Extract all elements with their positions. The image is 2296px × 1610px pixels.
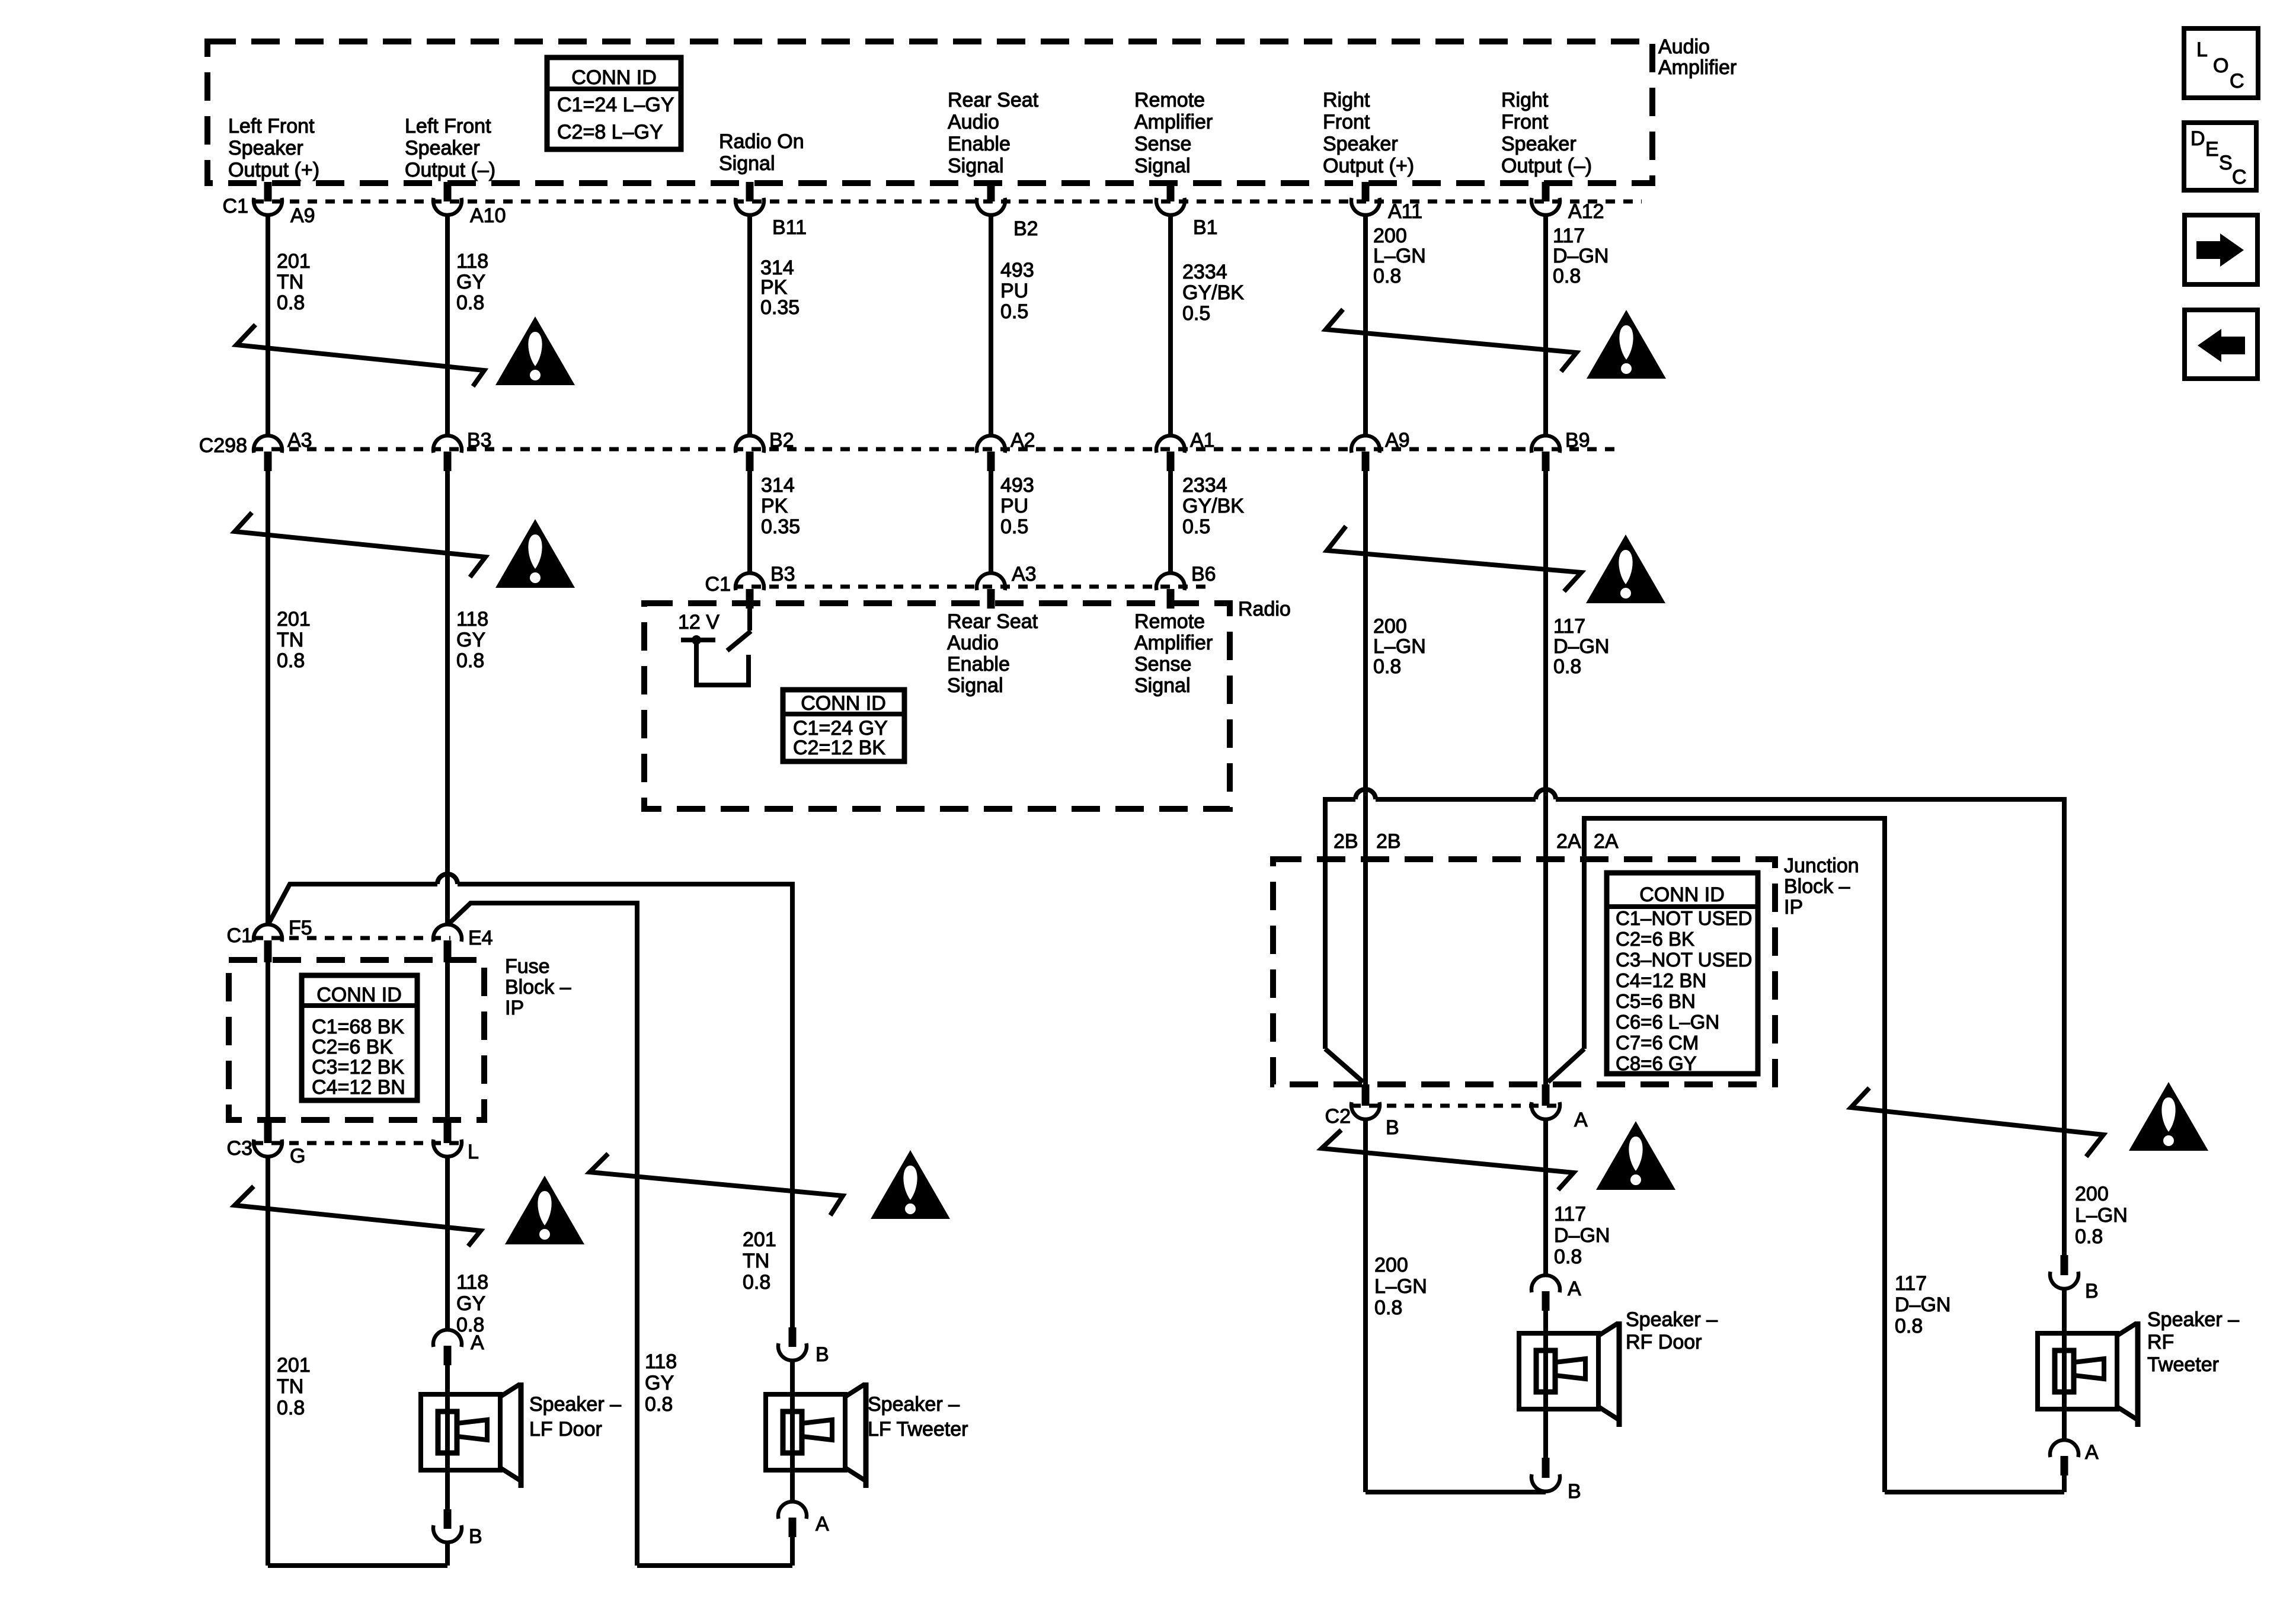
svg-text:Output (+): Output (+) (1323, 155, 1414, 177)
svg-text:Amplifier: Amplifier (1134, 632, 1213, 654)
svg-text:A: A (816, 1513, 829, 1535)
svg-text:200: 200 (2075, 1183, 2109, 1205)
svg-text:RF: RF (2147, 1331, 2174, 1353)
svg-text:Right: Right (1323, 89, 1370, 111)
wire label 118 GY 0.8 col2 (456, 250, 488, 314)
connector A LF tweeter (778, 1502, 807, 1537)
wire RF door A to speaker (1543, 1308, 1548, 1333)
speaker RF tweeter label (2147, 1308, 2239, 1376)
svg-text:Speaker: Speaker (228, 137, 303, 159)
svg-text:Rear Seat: Rear Seat (948, 89, 1039, 111)
svg-text:0.8: 0.8 (277, 292, 305, 314)
svg-text:0.5: 0.5 (1182, 516, 1210, 538)
C298 connector col4 (977, 436, 1005, 471)
connector B RF door id (1568, 1480, 1581, 1503)
wire label 2334 GY/BK 0.5 col5 (1182, 261, 1244, 325)
svg-text:C2: C2 (1325, 1105, 1351, 1128)
svg-text:12 V: 12 V (678, 611, 720, 633)
wire label 200 L-GN 0.8 rf tweeter right (2075, 1183, 2128, 1248)
wire LF tweeter B to speaker (790, 1360, 795, 1394)
svg-text:Output (–): Output (–) (1501, 155, 1592, 177)
svg-text:B3: B3 (770, 563, 795, 585)
speaker LF door label (529, 1393, 621, 1441)
svg-text:L: L (2196, 39, 2208, 61)
wire col2 C298 to fuse E4 (445, 469, 450, 924)
svg-text:Speaker –: Speaker – (1626, 1308, 1718, 1331)
svg-text:B: B (469, 1525, 482, 1548)
wire label 118 GY 0.8 tweeter left (645, 1350, 677, 1416)
wire RF tweeter speaker to A (2062, 1407, 2067, 1439)
amp CONN ID rows (557, 94, 674, 143)
C298 connector col6 (1351, 436, 1380, 471)
radio connector name C1 (705, 573, 731, 596)
connector A RF tweeter (2050, 1440, 2078, 1475)
note pointer zigzag T2 (235, 513, 485, 577)
svg-text:A: A (2085, 1441, 2099, 1464)
junction bottom connector row dotted line (1351, 1104, 1559, 1108)
svg-text:CONN ID: CONN ID (801, 692, 886, 715)
svg-text:A12: A12 (1568, 200, 1604, 223)
audio amplifier label (1658, 36, 1737, 79)
svg-text:C1=24 L–GY: C1=24 L–GY (557, 94, 674, 116)
svg-text:O: O (2213, 55, 2228, 77)
svg-text:L–GN: L–GN (1373, 635, 1426, 658)
svg-text:TN: TN (277, 1375, 303, 1398)
svg-text:Amplifier: Amplifier (1134, 111, 1213, 133)
fuse CONN ID rows (312, 1016, 405, 1099)
connector B RF door (1531, 1458, 1560, 1491)
svg-text:201: 201 (277, 250, 311, 273)
amp pin function label col5 (1134, 89, 1213, 177)
fuse bottom connector row dotted line (254, 1141, 462, 1145)
wire col1 C298 to fuse F5 (266, 469, 270, 924)
svg-text:0.8: 0.8 (743, 1271, 770, 1294)
audio amplifier dashed box (207, 41, 1652, 183)
svg-text:GY/BK: GY/BK (1182, 495, 1244, 517)
svg-text:L–GN: L–GN (1373, 245, 1426, 267)
RF tweeter loop wire (1885, 1490, 2064, 1494)
svg-text:GY: GY (456, 271, 485, 293)
svg-text:C: C (2232, 166, 2247, 188)
svg-text:D: D (2191, 127, 2205, 150)
fuse CONN ID box (302, 975, 417, 1100)
speaker LF tweeter label (868, 1393, 968, 1441)
junction connector name C2 (1325, 1105, 1351, 1128)
RF door loop wire (1366, 1490, 1546, 1494)
svg-text:B2: B2 (769, 429, 794, 452)
svg-text:IP: IP (1784, 896, 1803, 918)
note triangle T3 (1587, 310, 1666, 379)
C298 connector col3 (736, 436, 764, 471)
svg-text:201: 201 (277, 608, 311, 630)
C298 connector col5 (1156, 436, 1185, 471)
svg-text:CONN ID: CONN ID (1639, 884, 1725, 906)
fuse top pin ids (289, 917, 493, 949)
amp CONN ID box (547, 57, 681, 149)
svg-text:Junction: Junction (1784, 854, 1859, 877)
note pointer zigzag T7 (1322, 1130, 1574, 1190)
note pointer zigzag T5 (235, 1186, 481, 1246)
note pointer zigzag T6 (590, 1154, 843, 1215)
fuse bottom pin ids (290, 1141, 479, 1167)
svg-text:A2: A2 (1011, 429, 1035, 452)
svg-text:0.8: 0.8 (645, 1393, 673, 1416)
speaker RF door label (1626, 1308, 1718, 1353)
fuse top connector row dotted line (254, 936, 450, 940)
svg-text:Speaker: Speaker (1323, 133, 1398, 155)
svg-text:Signal: Signal (1134, 155, 1191, 177)
connector A RF tweeter id (2085, 1441, 2099, 1464)
wire label 200 L-GN 0.8 col6 bottom (1374, 1254, 1427, 1319)
C298 connector name (199, 434, 247, 457)
wire LF door A to speaker (445, 1363, 450, 1394)
svg-text:493: 493 (1000, 259, 1034, 281)
svg-text:Block –: Block – (505, 976, 571, 998)
svg-text:D–GN: D–GN (1553, 245, 1609, 267)
svg-text:Enable: Enable (948, 133, 1011, 155)
LF door loop wire (268, 1563, 447, 1568)
svg-text:Front: Front (1501, 111, 1549, 133)
svg-text:Radio On: Radio On (719, 130, 804, 153)
svg-text:Front: Front (1323, 111, 1370, 133)
amp connector pin col7 (1531, 182, 1560, 215)
note triangle T6 (871, 1150, 950, 1219)
wire col3 amp to C298 (747, 215, 752, 435)
svg-text:LF Door: LF Door (529, 1418, 602, 1441)
amp connector row dotted line (254, 200, 1642, 204)
svg-text:E4: E4 (468, 927, 493, 949)
wire col6 amp to C298 (1363, 215, 1368, 435)
svg-text:A9: A9 (1385, 429, 1410, 452)
svg-text:B: B (816, 1343, 829, 1366)
svg-text:Sense: Sense (1134, 133, 1191, 155)
svg-text:Remote: Remote (1134, 89, 1205, 111)
jb terminal labels 2B 2B 2A 2A (1334, 830, 1619, 853)
wire col1 fuse G to LF door loop (266, 1157, 270, 1566)
svg-text:S: S (2219, 152, 2233, 174)
junction block dashed box (1273, 859, 1775, 1084)
fuse block label (505, 955, 571, 1019)
svg-text:Tweeter: Tweeter (2147, 1353, 2219, 1376)
svg-text:Signal: Signal (1134, 674, 1191, 697)
amp connector pin col4 (977, 182, 1005, 215)
svg-text:118: 118 (456, 1271, 488, 1294)
svg-text:0.8: 0.8 (1373, 655, 1401, 678)
svg-text:0.8: 0.8 (1553, 265, 1581, 287)
speaker RF door (1519, 1321, 1619, 1427)
radio connector B6 (1156, 573, 1185, 609)
svg-text:Sense: Sense (1134, 653, 1191, 676)
svg-text:493: 493 (1000, 474, 1034, 497)
svg-text:A3: A3 (287, 429, 312, 452)
svg-text:0.8: 0.8 (1553, 655, 1581, 678)
connector B LF door (433, 1509, 462, 1542)
svg-text:A11: A11 (1388, 200, 1422, 223)
connector B RF tweeter (2050, 1255, 2078, 1289)
note triangle T2 (495, 519, 575, 588)
wire label 117 D-GN 0.8 rf tweeter left (1895, 1272, 1950, 1337)
junction block label (1784, 854, 1859, 918)
svg-text:CONN ID: CONN ID (571, 66, 657, 89)
wire col5 C298 to radio B6 (1168, 469, 1173, 572)
junction connector C2-B (1351, 1084, 1380, 1119)
svg-text:Output (–): Output (–) (405, 159, 495, 181)
speaker LF door (421, 1382, 521, 1488)
legend right arrow box (2185, 215, 2257, 284)
svg-text:C4=12 BN: C4=12 BN (312, 1076, 405, 1099)
svg-text:0.5: 0.5 (1000, 300, 1028, 323)
connector A LF door (433, 1330, 462, 1365)
note triangle T4 (1586, 534, 1665, 603)
svg-text:Radio: Radio (1238, 598, 1291, 620)
svg-text:B11: B11 (772, 216, 807, 239)
radio connector row dotted line (734, 585, 1209, 589)
connector A LF door id (471, 1331, 484, 1354)
svg-text:A1: A1 (1190, 429, 1215, 452)
jb bus 200 L-GN horizontal (1325, 789, 2064, 1255)
C298 connector col7 (1531, 436, 1560, 471)
svg-text:118: 118 (456, 250, 488, 273)
svg-text:117: 117 (1553, 615, 1585, 638)
svg-text:C1: C1 (223, 195, 248, 217)
speaker RF tweeter (2038, 1321, 2138, 1427)
C298 connector col2 (433, 436, 462, 471)
svg-text:C2=8 L–GY: C2=8 L–GY (557, 121, 663, 143)
svg-text:0.8: 0.8 (1374, 1297, 1402, 1319)
amp connector pin col1 (254, 182, 282, 215)
wire LF tweeter speaker to A (790, 1470, 795, 1501)
junction CONN ID title (1639, 884, 1725, 906)
wire LF door speaker to B (445, 1470, 450, 1509)
svg-text:Output (+): Output (+) (228, 159, 319, 181)
svg-text:PK: PK (760, 276, 788, 299)
radio CONN ID title (801, 692, 886, 715)
svg-text:0.8: 0.8 (1554, 1246, 1582, 1268)
svg-text:2334: 2334 (1182, 261, 1227, 283)
amp pin function label col1 (228, 115, 319, 181)
svg-text:C3–NOT USED: C3–NOT USED (1616, 949, 1752, 971)
svg-text:L: L (468, 1141, 479, 1163)
C298 connector row dotted line (254, 447, 1618, 452)
svg-text:200: 200 (1374, 1254, 1408, 1276)
radio label (1238, 598, 1291, 620)
connector B LF tweeter id (816, 1343, 829, 1366)
svg-text:D–GN: D–GN (1553, 635, 1609, 658)
fuse CONN ID title (316, 984, 402, 1006)
wire label 118 GY 0.8 col2 bottom (456, 1271, 488, 1336)
svg-text:201: 201 (743, 1228, 776, 1251)
svg-text:CONN ID: CONN ID (316, 984, 402, 1006)
svg-text:TN: TN (277, 271, 303, 293)
wire col2 amp to C298 (445, 215, 450, 435)
svg-text:Speaker –: Speaker – (2147, 1308, 2239, 1331)
amp pin function label col6 (1323, 89, 1414, 177)
wire label 118 GY 0.8 col2 mid (456, 608, 488, 672)
connector A RF door (1531, 1275, 1560, 1311)
svg-text:RF Door: RF Door (1626, 1331, 1702, 1353)
wire col2 through fuse block (445, 960, 450, 1120)
svg-text:0.8: 0.8 (456, 649, 484, 672)
wire col4 C298 to radio A3 (989, 469, 993, 572)
svg-text:118: 118 (645, 1350, 677, 1373)
wire label 117 D-GN 0.8 col7 mid (1553, 615, 1609, 678)
svg-text:C8=6 GY: C8=6 GY (1616, 1052, 1697, 1074)
connector B RF tweeter id (2085, 1280, 2099, 1302)
fuse block dashed box (229, 960, 484, 1120)
svg-text:C2=12 BK: C2=12 BK (793, 737, 885, 759)
note triangle T8 (2129, 1082, 2208, 1151)
svg-text:Rear Seat: Rear Seat (947, 610, 1038, 633)
junction CONN ID box (1607, 873, 1758, 1074)
wire label 2334 GY/BK 0.5 col5 lower (1182, 474, 1244, 538)
wire LF tweeter A to loop (790, 1535, 795, 1566)
svg-text:Signal: Signal (719, 152, 775, 175)
radio dashed box (644, 603, 1230, 809)
svg-text:GY: GY (456, 1292, 485, 1315)
legend DESC box (2184, 123, 2256, 190)
svg-text:Right: Right (1501, 89, 1549, 111)
svg-text:C7=6 CM: C7=6 CM (1616, 1032, 1699, 1054)
svg-text:GY: GY (456, 629, 485, 651)
svg-text:A10: A10 (470, 204, 506, 227)
svg-text:C1=68 BK: C1=68 BK (312, 1016, 404, 1038)
svg-text:Speaker –: Speaker – (529, 1393, 621, 1416)
wire label 200 L-GN 0.8 col6 (1373, 225, 1426, 287)
radio signal label remote amp (1134, 610, 1213, 697)
legend left arrow box (2185, 310, 2257, 379)
amp connector pin ids (290, 200, 1604, 240)
svg-text:Signal: Signal (947, 674, 1003, 697)
svg-text:TN: TN (277, 629, 303, 651)
svg-text:117: 117 (1554, 1203, 1586, 1225)
wire RF door speaker to B (1543, 1407, 1548, 1458)
svg-text:C: C (2230, 70, 2244, 92)
connector B LF door id (469, 1525, 482, 1548)
svg-text:GY/BK: GY/BK (1182, 281, 1244, 304)
branch line col1 to LF tweeter (201 TN) (268, 874, 792, 1327)
connector A RF door id (1568, 1278, 1581, 1300)
svg-text:117: 117 (1895, 1272, 1927, 1295)
wire label 201 TN 0.8 col1 bottom (277, 1354, 311, 1419)
radio-on switch (727, 606, 751, 651)
svg-text:B9: B9 (1565, 429, 1590, 452)
svg-text:PK: PK (761, 495, 788, 517)
junction connector A (1531, 1084, 1560, 1119)
amp pin function label col4 (948, 89, 1039, 177)
svg-text:2334: 2334 (1182, 474, 1227, 497)
svg-text:0.35: 0.35 (760, 296, 800, 319)
wire col6 C298 to junction 2B (1363, 469, 1368, 1084)
legend LOC box (2184, 28, 2258, 98)
svg-text:PU: PU (1000, 495, 1028, 517)
svg-text:B: B (1386, 1116, 1399, 1139)
radio 12V supply (678, 611, 749, 685)
svg-text:Audio: Audio (1658, 36, 1710, 58)
svg-text:B3: B3 (467, 429, 492, 452)
radio CONN ID rows (793, 717, 888, 759)
svg-text:C6=6 L–GN: C6=6 L–GN (1616, 1011, 1719, 1033)
svg-text:LF Tweeter: LF Tweeter (868, 1418, 968, 1441)
svg-text:2B: 2B (1376, 830, 1401, 853)
wire col1 through fuse block (266, 960, 270, 1120)
speaker LF tweeter (766, 1382, 866, 1488)
svg-text:F5: F5 (289, 917, 312, 939)
svg-text:117: 117 (1553, 225, 1585, 247)
svg-text:A9: A9 (290, 204, 315, 227)
fuse connector L (433, 1120, 462, 1157)
svg-text:A3: A3 (1012, 563, 1037, 585)
junction pin ids (1386, 1109, 1588, 1139)
wire col6 junction to RF door loop (1363, 1120, 1368, 1492)
LF tweeter loop wire (637, 1563, 792, 1568)
svg-text:L–GN: L–GN (1374, 1275, 1427, 1298)
amp CONN ID title (571, 66, 657, 89)
fuse connector C1-F5 (254, 924, 282, 962)
note pointer zigzag T1 (236, 325, 484, 386)
wire label 314 PK 0.35 col3 (760, 257, 800, 319)
svg-text:B: B (1568, 1480, 1581, 1503)
wire col3 C298 to radio B3 (747, 469, 752, 572)
amp connector pin col6 (1351, 182, 1380, 215)
fuse bottom connector name C3 (227, 1137, 252, 1160)
svg-text:Left Front: Left Front (405, 115, 491, 137)
svg-text:118: 118 (456, 608, 488, 630)
svg-text:PU: PU (1000, 280, 1028, 302)
radio connector A3 (977, 573, 1005, 609)
svg-text:200: 200 (1373, 615, 1407, 638)
wire label 201 TN 0.8 tweeter right (743, 1228, 776, 1294)
wire label 117 D-GN 0.8 col7 bottom (1554, 1203, 1610, 1268)
svg-text:Audio: Audio (948, 111, 999, 133)
note triangle T1 (495, 316, 575, 385)
jb bus 117 D-GN horizontal (1584, 818, 1885, 1492)
svg-text:B1: B1 (1193, 216, 1218, 239)
svg-text:C5=6 BN: C5=6 BN (1616, 990, 1696, 1012)
branch line col2 to LF tweeter (118 GY) (447, 903, 637, 1566)
svg-text:C2=6 BK: C2=6 BK (312, 1036, 393, 1058)
svg-text:B: B (2085, 1280, 2099, 1302)
svg-text:Left Front: Left Front (228, 115, 315, 137)
radio signal label rear seat (947, 610, 1038, 697)
svg-text:0.5: 0.5 (1000, 516, 1028, 538)
svg-text:Speaker: Speaker (1501, 133, 1576, 155)
wire RF tweeter B to speaker (2062, 1289, 2067, 1333)
amp pin function label col3 (719, 130, 804, 175)
svg-text:Speaker: Speaker (405, 137, 480, 159)
svg-text:0.8: 0.8 (277, 1397, 305, 1419)
amp connector pin col5 (1156, 182, 1185, 215)
wire label 493 PU 0.5 col4 lower (1000, 474, 1034, 538)
wire col4 amp to C298 (989, 215, 993, 435)
svg-text:0.8: 0.8 (277, 649, 305, 672)
svg-text:GY: GY (645, 1372, 674, 1394)
amp connector pin col2 (433, 182, 462, 215)
svg-text:201: 201 (277, 1354, 311, 1377)
svg-text:L–GN: L–GN (2075, 1204, 2128, 1227)
wire col5 amp to C298 (1168, 215, 1173, 435)
wire label 200 L-GN 0.8 col6 mid (1373, 615, 1426, 678)
svg-text:C1–NOT USED: C1–NOT USED (1616, 907, 1752, 929)
svg-text:Speaker –: Speaker – (868, 1393, 960, 1416)
radio CONN ID box (783, 690, 904, 761)
svg-text:C1: C1 (227, 924, 252, 947)
wire col1 amp to C298 (266, 215, 270, 435)
radio pin ids (770, 563, 1216, 585)
wire label 314 PK 0.35 col3 lower (761, 474, 800, 538)
note pointer zigzag T3 (1326, 309, 1576, 372)
svg-text:Amplifier: Amplifier (1658, 56, 1737, 79)
svg-text:0.8: 0.8 (1373, 265, 1401, 287)
